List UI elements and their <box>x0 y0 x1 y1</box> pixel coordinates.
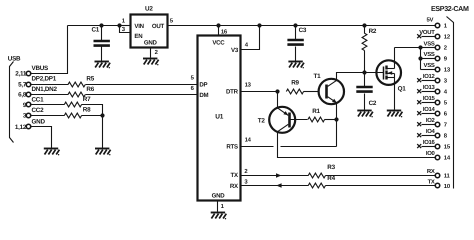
node U1 V3 junction <box>257 23 261 27</box>
resistor R8 <box>64 113 81 118</box>
node R2 junction <box>362 23 366 27</box>
svg-text:IO14: IO14 <box>423 106 436 113</box>
svg-text:13: 13 <box>444 67 451 74</box>
svg-text:TX: TX <box>428 179 435 186</box>
IC U2 voltage regulator <box>131 15 168 48</box>
wire CC2 to R8 <box>31 115 65 117</box>
svg-text:14: 14 <box>245 136 252 143</box>
IC U1 USB-serial converter <box>198 36 241 201</box>
U1 pin 16 VCC stub <box>218 26 220 36</box>
ground U2 <box>143 58 157 60</box>
ESP32-CAM pin 4 (IO13) <box>422 91 436 93</box>
svg-text:3: 3 <box>244 179 248 186</box>
wire DP2,DP1 to R5 <box>31 84 69 86</box>
svg-text:R9: R9 <box>291 80 299 87</box>
U2 pin 1 VIN stub <box>120 25 131 27</box>
ESP32-CAM pin 5 (IO15) <box>422 102 436 104</box>
svg-text:DN1,DN2: DN1,DN2 <box>32 86 58 93</box>
node C3 junction <box>293 23 297 27</box>
capacitor C3 <box>295 26 297 40</box>
ESP32-CAM pin 2 (VSS) <box>435 45 440 50</box>
USB pin 5,7 (DP2,DP1) <box>26 82 31 87</box>
U2 pin 3 EN stub <box>120 26 131 33</box>
svg-text:TX: TX <box>231 172 239 179</box>
svg-text:6: 6 <box>191 85 195 92</box>
svg-text:CC1: CC1 <box>32 96 45 103</box>
svg-text:IO4: IO4 <box>426 128 436 135</box>
node gate/R2/C2 junction <box>362 70 366 74</box>
svg-text:1: 1 <box>221 203 225 210</box>
svg-text:5: 5 <box>191 74 195 81</box>
node U1 VCC junction <box>216 23 220 27</box>
USB pin 6,8 (DN1,DN2) <box>26 92 31 97</box>
wire 5V rail left segment <box>68 25 131 27</box>
wire DTR node down to T2 emitter <box>277 92 279 108</box>
svg-text:USB: USB <box>8 56 21 63</box>
wire DN1,DN2 to R6 <box>31 94 69 96</box>
svg-text:2: 2 <box>155 49 159 56</box>
USB pin 1,12 (GND) <box>26 124 31 129</box>
ESP32-CAM pin 3 (IO12) <box>422 80 436 82</box>
wire T2 collector to ESP32 IO0 <box>278 132 436 158</box>
svg-text:IO12: IO12 <box>423 73 436 80</box>
svg-text:R1: R1 <box>312 108 320 115</box>
svg-text:2: 2 <box>244 168 248 175</box>
resistor R1 <box>308 117 325 122</box>
wire 5V rail right segment <box>168 25 436 27</box>
node U2 EN tie junction <box>117 23 121 27</box>
svg-text:DM: DM <box>199 92 208 99</box>
svg-text:VIN: VIN <box>134 23 143 30</box>
svg-text:VCC: VCC <box>212 39 225 46</box>
ESP32-CAM pin 1 (5V) <box>435 23 440 28</box>
resistor R9 <box>286 89 303 94</box>
svg-text:2,11: 2,11 <box>15 71 27 78</box>
ground Q1 source <box>387 110 401 112</box>
ESP32-CAM pin 9 (VSS) <box>435 56 440 61</box>
node C1 junction <box>99 23 103 27</box>
svg-text:6: 6 <box>444 111 448 118</box>
svg-text:RX: RX <box>230 183 239 190</box>
svg-text:EN: EN <box>134 33 142 40</box>
svg-text:IO0: IO0 <box>426 150 436 157</box>
wire VBUS from USB pin to 5V rail <box>31 26 68 74</box>
svg-text:VOUT: VOUT <box>419 29 435 36</box>
wire VSS bus horizontal <box>395 47 421 49</box>
resistor R5 <box>68 82 85 87</box>
svg-text:RTS: RTS <box>226 143 238 150</box>
svg-text:VBUS: VBUS <box>32 65 49 72</box>
node R1/RTS junction <box>334 117 338 121</box>
transistor T1 <box>319 79 344 104</box>
svg-text:2: 2 <box>444 45 448 52</box>
ground CC resistors <box>95 148 109 150</box>
resistor R3 <box>308 173 325 178</box>
wire T1 emitter down to RTS <box>336 104 338 147</box>
ESP32-CAM pin 8 (IO4) <box>422 135 436 137</box>
wire VSS to pin 9 <box>421 58 436 60</box>
svg-text:10: 10 <box>444 183 451 190</box>
U1 pin 3 RX wire from ESP32 TX <box>241 185 309 187</box>
ESP32-CAM pin 12 (VOUT) <box>422 36 436 38</box>
svg-text:R3: R3 <box>327 164 335 171</box>
svg-text:R4: R4 <box>327 175 335 182</box>
transistor Q1 mosfet <box>376 60 401 85</box>
svg-text:12: 12 <box>444 34 451 41</box>
svg-text:IO2: IO2 <box>426 117 436 124</box>
svg-text:OUT: OUT <box>152 23 165 30</box>
svg-text:DP2,DP1: DP2,DP1 <box>32 76 57 83</box>
ground U1 <box>211 212 225 214</box>
svg-text:7: 7 <box>444 122 448 129</box>
svg-text:IO16: IO16 <box>423 139 436 146</box>
svg-text:5: 5 <box>170 18 174 25</box>
svg-text:DP: DP <box>199 82 207 89</box>
svg-text:RX: RX <box>427 168 435 175</box>
svg-text:C2: C2 <box>369 100 377 107</box>
svg-text:9: 9 <box>444 56 448 63</box>
ground C1 <box>95 61 109 63</box>
svg-text:1,12: 1,12 <box>15 124 27 131</box>
svg-text:Q1: Q1 <box>398 86 407 93</box>
ESP32-CAM pin 6 (IO14) <box>422 113 436 115</box>
ground USB GND <box>44 148 58 150</box>
wire Q1 source to ground <box>394 78 396 110</box>
svg-text:13: 13 <box>245 82 252 89</box>
svg-text:GND: GND <box>144 39 158 46</box>
U1 pin 13 DTR stub wire <box>241 91 278 93</box>
svg-text:R2: R2 <box>369 28 377 35</box>
TX direction arrow <box>276 173 281 177</box>
svg-text:R7: R7 <box>83 96 91 103</box>
connector USB bracket <box>10 62 14 143</box>
U1 pin 4 V3 stub wire to rail <box>241 26 260 50</box>
svg-text:T2: T2 <box>258 118 266 125</box>
svg-text:R6: R6 <box>86 86 94 93</box>
wire Q1 gate lead <box>338 72 384 74</box>
svg-text:3: 3 <box>444 78 448 85</box>
svg-text:DTR: DTR <box>226 89 239 96</box>
svg-text:R5: R5 <box>86 75 94 82</box>
RX direction arrow <box>276 183 281 187</box>
resistor R4 <box>308 183 325 188</box>
svg-text:IO13: IO13 <box>423 84 436 91</box>
wire VSS bus vertical <box>420 48 422 70</box>
wire USB GND pin down <box>31 127 52 149</box>
wire R5 to U1 DP pin 5 <box>86 84 197 86</box>
node DTR junction <box>275 89 279 93</box>
svg-text:U2: U2 <box>145 6 153 13</box>
node VSS pin9 junction <box>418 56 422 60</box>
capacitor C1 <box>101 26 103 41</box>
svg-text:8: 8 <box>444 133 448 140</box>
wire Q1 drain up to VSS <box>394 48 396 69</box>
U1 pin 14 RTS wire with crossing gap <box>241 146 274 148</box>
USB pin 3 (CC2) <box>26 113 31 118</box>
svg-text:16: 16 <box>221 29 228 36</box>
svg-text:V3: V3 <box>231 47 239 54</box>
transistor T2 <box>269 107 295 133</box>
ESP32-CAM pin 14 (IO0) <box>435 155 440 160</box>
svg-text:GND: GND <box>32 118 46 125</box>
wire R6 to U1 DM pin 6 <box>86 94 197 96</box>
svg-text:ESP32-CAM: ESP32-CAM <box>431 5 469 13</box>
svg-text:GND: GND <box>212 192 226 199</box>
svg-text:U1: U1 <box>215 114 223 121</box>
capacitor C2 <box>364 73 366 87</box>
svg-text:R8: R8 <box>83 107 91 114</box>
U1 pin 2 TX wire to ESP32 RX <box>241 175 309 177</box>
svg-text:VSS: VSS <box>424 51 435 58</box>
svg-text:C1: C1 <box>92 27 100 34</box>
USB pin 2,11 (VBUS) <box>26 71 31 76</box>
ground C3 <box>288 61 302 63</box>
ESP32-CAM pin 11 (RX) <box>435 173 440 178</box>
connector ESP32-CAM bracket <box>447 17 454 189</box>
node VSS pin2 junction <box>418 45 422 49</box>
ESP32-CAM pin 7 (IO2) <box>422 124 436 126</box>
svg-text:6,8: 6,8 <box>18 92 27 99</box>
resistor R7 <box>64 102 81 107</box>
wire R7 to CC ground node <box>82 105 103 149</box>
U2 pin 2 GND stub <box>150 48 152 58</box>
svg-text:5: 5 <box>444 100 448 107</box>
wire T2 base to R1 <box>291 119 308 121</box>
svg-text:14: 14 <box>444 155 451 162</box>
svg-text:15: 15 <box>444 143 451 150</box>
svg-text:VSS: VSS <box>424 62 435 69</box>
wire VSS to pin 2 <box>421 47 436 49</box>
ESP32-CAM pin 13 (VSS) <box>435 67 440 72</box>
resistor R6 <box>68 92 85 97</box>
wire R9 to T1 base <box>304 91 319 93</box>
wire R1 to T1 emitter node <box>325 119 337 121</box>
svg-text:1: 1 <box>444 23 448 30</box>
svg-text:11: 11 <box>444 172 451 179</box>
node R7/R8 junction <box>100 113 104 117</box>
svg-text:4: 4 <box>444 89 448 96</box>
wire CC1 to R7 <box>31 104 65 106</box>
svg-text:IO15: IO15 <box>423 95 436 102</box>
wire R8 to CC ground node <box>82 115 103 117</box>
USB pin 9 (CC1) <box>26 102 31 107</box>
wire VSS to pin 13 <box>421 69 436 71</box>
ESP32-CAM pin 10 (TX) <box>435 183 440 188</box>
svg-text:1: 1 <box>122 18 126 25</box>
ground C2 <box>357 110 371 112</box>
svg-text:T1: T1 <box>314 73 322 80</box>
svg-text:C3: C3 <box>299 27 307 34</box>
svg-text:CC2: CC2 <box>32 107 45 114</box>
svg-text:5,7: 5,7 <box>18 81 27 88</box>
ESP32-CAM pin 15 (IO16) <box>422 146 436 148</box>
svg-text:4: 4 <box>245 42 249 49</box>
resistor R2 <box>364 26 366 34</box>
wire T1 collector to gate node <box>337 73 384 81</box>
svg-text:VSS: VSS <box>424 40 435 47</box>
svg-text:5V: 5V <box>426 17 433 24</box>
